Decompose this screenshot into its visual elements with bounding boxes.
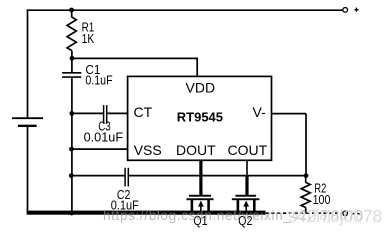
label minus sign: [353, 213, 356, 215]
node junction dot C2 tap: [69, 173, 74, 178]
svg-text:https://blog.csdn.net/weixin_: https://blog.csdn.net/weixin_: [103, 208, 291, 223]
svg-text:COUT: COUT: [227, 142, 267, 158]
svg-text:RT9545: RT9545: [177, 110, 223, 125]
terminal positive circle: [343, 8, 348, 13]
transistor Q2 body arrow: [243, 201, 249, 207]
wire C2 net left: [71, 175, 124, 177]
wire rail segment C2 to bottom bus: [71, 176, 73, 213]
wire DOUT gate lead: [199, 160, 202, 195]
svg-text:VSS: VSS: [134, 142, 162, 158]
svg-text:CT: CT: [134, 104, 153, 120]
wire CT net left: [72, 112, 103, 114]
capacitor C2 right plate: [127, 168, 129, 187]
wire rail segment VSS to C2: [71, 149, 73, 176]
transistor Q1 left terminal: [191, 200, 194, 211]
node junction dot bottom bus: [69, 211, 74, 216]
svg-text:42i78j0078: 42i78j0078: [291, 208, 364, 223]
resistor R2: [301, 182, 310, 207]
capacitor C3 left plate: [103, 105, 105, 124]
transistor Q2 left terminal: [237, 200, 240, 211]
resistor R1: [67, 17, 76, 51]
transistor Q1 body arrow: [198, 201, 204, 207]
wire bottom bus thick: [27, 211, 266, 215]
transistor Q2 channel bar: [232, 198, 260, 200]
svg-text:0.01uF: 0.01uF: [84, 129, 124, 144]
capacitor C3 right plate: [106, 105, 108, 124]
wire R1 bottom lead: [71, 51, 73, 73]
wire C2 net right to V- node: [129, 175, 306, 177]
transistor Q1 channel bar: [187, 198, 214, 200]
node junction dot V-/R2: [304, 173, 309, 178]
wire left rail lower: [27, 126, 29, 213]
wire VDD horizontal: [72, 57, 197, 59]
transistor Q1 right terminal: [207, 200, 210, 211]
transistor Q2 body lead: [245, 206, 247, 211]
wire R1 top lead: [71, 10, 73, 17]
wire V- vertical drop: [305, 114, 307, 176]
battery BT1 positive plate: [12, 117, 43, 119]
capacitor C1 top plate: [62, 72, 81, 74]
wire top rail (+): [27, 9, 343, 11]
svg-text:0.1uF: 0.1uF: [85, 73, 112, 88]
transistor Q2 gate bar: [235, 195, 256, 197]
wire VDD vertical into pin: [196, 58, 198, 77]
wire COUT gate lead thick: [245, 176, 248, 195]
svg-text:VDD: VDD: [186, 80, 216, 96]
node junction dot CT tap: [69, 111, 74, 116]
svg-text:1K: 1K: [82, 31, 95, 46]
terminal negative circle: [343, 211, 348, 216]
transistor Q1 gate bar: [189, 195, 211, 197]
wire R2 top lead: [305, 176, 307, 183]
node junction dot at R1 top: [69, 8, 74, 13]
transistor Q2 right terminal: [253, 200, 256, 211]
IC U1 RT9545 body: [128, 76, 272, 160]
node junction dot VSS tap: [69, 147, 74, 152]
capacitor C2 left plate: [124, 168, 126, 187]
wire bottom dashed segment to negative terminal: [266, 212, 343, 214]
label plus sign: [354, 9, 358, 11]
wire VSS stub: [72, 148, 129, 150]
capacitor C1 bottom plate: [62, 76, 81, 78]
wire V- stub: [272, 113, 307, 115]
wire R2 bottom lead: [305, 208, 307, 214]
battery BT1 negative plate: [18, 125, 37, 127]
wire C1 bottom lead: [71, 77, 73, 113]
transistor Q1 body lead: [200, 206, 202, 211]
wire left rail upper: [27, 9, 29, 117]
wire COUT gate lead thin: [246, 160, 248, 177]
svg-text:V-: V-: [253, 104, 267, 120]
svg-text:DOUT: DOUT: [176, 142, 216, 158]
svg-text:100: 100: [313, 192, 331, 207]
wire rail segment CT to VSS: [71, 113, 73, 149]
node junction dot VDD tap: [70, 56, 75, 61]
wire CT net right to pin: [107, 112, 128, 114]
